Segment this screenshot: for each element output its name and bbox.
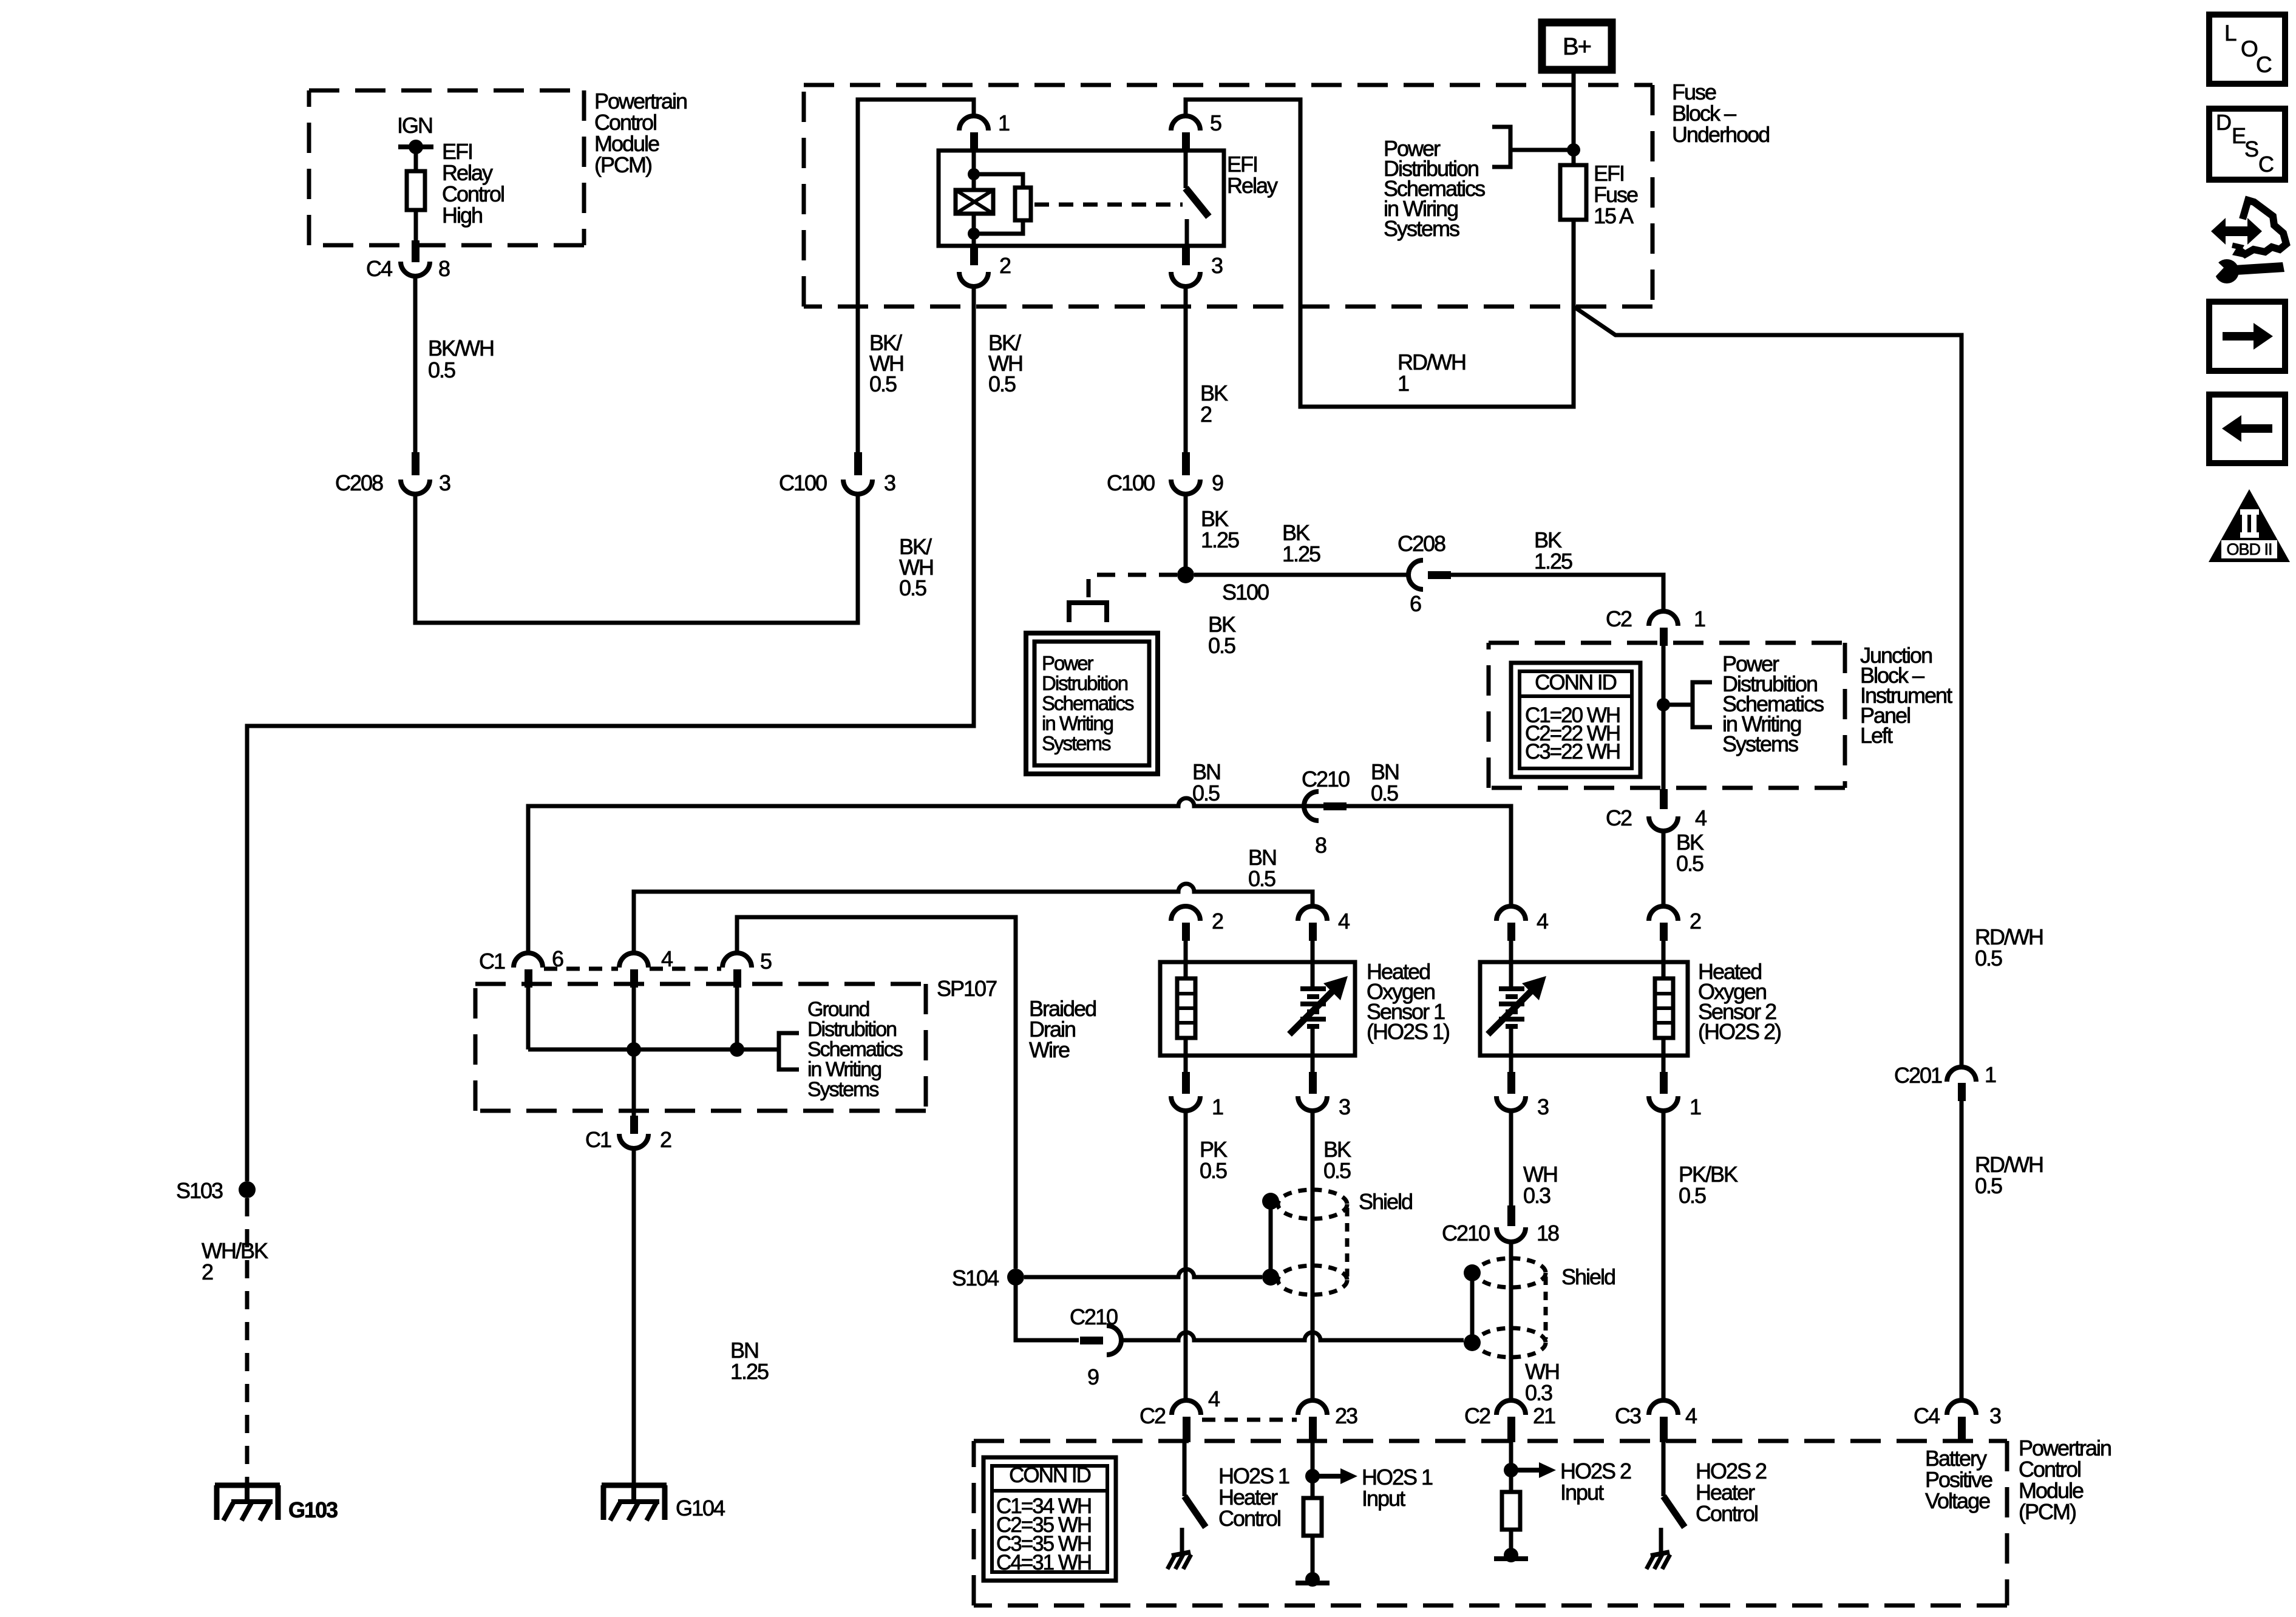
connector C1 pin 2 (cup) [619, 1134, 648, 1148]
node IGN terminal [398, 140, 433, 154]
label C1 (top) [479, 949, 505, 974]
svg-text:3: 3 [439, 470, 450, 495]
svg-text:C100: C100 [779, 470, 827, 495]
connector C1 pin 5 (stub) [733, 969, 741, 988]
label 4 (bottom C2) [1208, 1386, 1220, 1411]
connector C208 pin 3 (pin stub) [412, 452, 419, 475]
relay pin 1 connector (cap) [959, 116, 988, 131]
label Powertrain Control Module (PCM) top [594, 89, 687, 177]
svg-text:C208: C208 [1398, 531, 1445, 556]
connector C201 pin 1 (stub) [1958, 1083, 1966, 1101]
label S103 [176, 1178, 223, 1203]
SP107 callout bracket [779, 1033, 799, 1070]
label Junction Block - Instrument Panel Left [1860, 643, 1952, 748]
svg-text:C2: C2 [1140, 1403, 1166, 1428]
wire BK 2 relay pin3 to C100-9 [1184, 285, 1188, 453]
node S100 splice [1177, 566, 1194, 583]
Fuse Block Underhood dashed box outline [804, 85, 1652, 307]
SP107 dashed box outline [475, 984, 926, 1111]
connector C3 pin 4 (cap) [1649, 1400, 1678, 1415]
icon OBD II triangle [2209, 489, 2290, 562]
label 21 (C2) [1533, 1403, 1555, 1428]
svg-text:C3=22 WH: C3=22 WH [1525, 740, 1620, 764]
svg-text:C210: C210 [1070, 1304, 1118, 1329]
svg-text:in Writing: in Writing [1042, 712, 1113, 734]
HO2S2 heater element [1655, 978, 1673, 1038]
svg-text:3: 3 [1339, 1094, 1350, 1119]
label G103 [288, 1497, 338, 1522]
svg-text:Control: Control [1696, 1501, 1758, 1526]
svg-text:0.5: 0.5 [1676, 851, 1703, 876]
label C100 (pin9) [1107, 470, 1155, 495]
label C208 (left wire) [335, 470, 383, 495]
wire B+ down to junction [1572, 70, 1576, 152]
label C208 (top) [1398, 531, 1445, 556]
wire HO2S1 heater to box bottom [1184, 1038, 1188, 1056]
label S100 [1222, 580, 1269, 605]
svg-text:G103: G103 [288, 1497, 338, 1522]
svg-text:Shield: Shield [1561, 1264, 1615, 1289]
wire BK 0.5 C2-4 to HO2S2 pin 2 [1662, 831, 1666, 907]
wire WH 0.3 HO2S2 pin3 to C210-18 [1509, 1111, 1513, 1207]
connector C201 pin 1 (cap) [1947, 1067, 1976, 1082]
svg-text:Systems: Systems [1722, 731, 1798, 756]
label C210 (pin18) [1442, 1221, 1490, 1246]
relay coil branch wires [968, 151, 1023, 246]
label 18 (C210) [1537, 1221, 1559, 1246]
HO2S2 input arrow [1511, 1462, 1556, 1478]
svg-text:1: 1 [1985, 1062, 1996, 1087]
label 3 (C100) [884, 470, 895, 495]
HO2S2 sensor element (bars and arrow) [1488, 962, 1546, 1056]
svg-text:Wire: Wire [1029, 1037, 1070, 1062]
svg-text:C: C [2258, 152, 2274, 177]
wire BK 1.25 C100-9 to S100 [1184, 494, 1188, 575]
svg-text:0.5: 0.5 [1248, 866, 1275, 891]
relay pin 3 connector (cup) [1171, 272, 1200, 286]
HO2S1 heater element [1177, 978, 1195, 1038]
svg-text:21: 21 [1533, 1403, 1555, 1428]
dashed link C2 pins 4-23 [1202, 1418, 1297, 1422]
relay coil parallel resistor [1015, 188, 1031, 220]
power distribution callout bracket (top) [1492, 127, 1574, 167]
label HO2S 2 Heater Control [1696, 1459, 1767, 1526]
connector C2 pin 1 (stub) [1660, 628, 1668, 646]
svg-text:6: 6 [1410, 591, 1421, 616]
resistor EFI Relay Control High driver [407, 171, 425, 210]
svg-text:Systems: Systems [1384, 216, 1459, 241]
svg-text:0.5: 0.5 [1200, 1158, 1227, 1183]
label C1 (pin2) [585, 1127, 611, 1152]
label Power Distrubition Schematics in Writing Systems (junction block) [1722, 651, 1824, 756]
connector C208 pin 6 (socket) [1408, 560, 1423, 589]
label RD/WH 0.5 (upper) [1975, 924, 2043, 971]
svg-text:D: D [2216, 110, 2231, 135]
node shield 2 lower dot [1464, 1334, 1481, 1351]
wire BN 0.5 C1-4 up and right to HO2S1 pin 4 [634, 884, 1313, 953]
svg-text:OBD II: OBD II [2226, 540, 2272, 558]
svg-text:(PCM): (PCM) [2019, 1499, 2076, 1524]
svg-text:High: High [442, 203, 482, 228]
connector C208 pin 3 (cup) [401, 480, 430, 494]
wire braided drain C1-5 to S104 [737, 917, 1016, 1269]
connector C2 pin 4 bottom (cap) [1172, 1400, 1201, 1415]
label C1=34 WH [996, 1494, 1091, 1518]
label 6 (C1) [552, 946, 563, 971]
label Battery Positive Voltage [1925, 1446, 1992, 1513]
wire HO2S2 pin4 into box [1509, 941, 1513, 988]
HO2S1 input bias resistor [1303, 1476, 1322, 1536]
svg-text:8: 8 [438, 256, 450, 281]
HO2S1 pin 2 stub [1182, 923, 1190, 941]
label 2 (HO2S2) [1690, 909, 1701, 934]
connector C4 pin 3 (cap) [1947, 1400, 1976, 1415]
svg-text:1: 1 [1212, 1094, 1223, 1119]
connector C100 pin 3 (pin stub) [854, 452, 862, 475]
svg-text:C2: C2 [1606, 805, 1632, 830]
label SP107 [937, 976, 997, 1001]
svg-text:Systems: Systems [1042, 732, 1111, 754]
HO2S2 input ground [1494, 1530, 1528, 1562]
connector C1 pin 6 (stub) [525, 969, 532, 988]
label C4 (pin3) [1914, 1403, 1940, 1428]
label WH 0.3 (lower) [1525, 1359, 1559, 1405]
svg-text:2: 2 [202, 1259, 213, 1284]
node shield 2 upper dot [1464, 1264, 1481, 1281]
label BK/WH 0.5 (left of relay pin1 wire) [869, 330, 903, 396]
svg-text:C2: C2 [1606, 606, 1632, 631]
label BK 2 [1200, 381, 1228, 427]
Power Distrubition Schematics callout box (left) [1026, 633, 1158, 774]
shield 2 symbol (dashed cylinder) [1476, 1258, 1546, 1357]
label C210 (pin8) [1302, 767, 1350, 792]
svg-text:(HO2S 1): (HO2S 1) [1367, 1019, 1449, 1044]
label 5 (C1) [760, 949, 772, 974]
label 2 (HO2S1) [1212, 909, 1223, 934]
icon LOC box [2209, 15, 2285, 84]
label 4 (C3) [1685, 1403, 1697, 1428]
svg-text:2: 2 [1690, 909, 1701, 934]
connector C1 pin 4 (cap) [619, 953, 648, 968]
svg-text:CONN ID: CONN ID [1535, 671, 1617, 694]
label S104 [952, 1266, 999, 1290]
connector C1 pin 5 (cap) [722, 953, 752, 968]
svg-text:BK/WH: BK/WH [428, 336, 494, 361]
svg-text:Control: Control [1218, 1506, 1280, 1531]
svg-text:0.5: 0.5 [988, 371, 1016, 396]
icon next page arrow box [2209, 302, 2285, 371]
label 3 (HO2S1) [1339, 1094, 1350, 1119]
wire BK 1.25 C208-6 to C2-1 [1451, 575, 1663, 611]
HO2S1 pin 4 stub [1309, 923, 1317, 941]
Junction Block dashed box outline [1489, 643, 1845, 788]
wire C100-3 up and over to relay pin 1 [858, 100, 974, 453]
label C2=35 WH [996, 1513, 1091, 1537]
svg-text:(PCM): (PCM) [594, 152, 651, 177]
dashed ref wire S100 to power distribution box [1089, 575, 1177, 600]
wire WH 0.3 C210-18 to C2-21 [1509, 1242, 1513, 1400]
label 4 (C1) [661, 946, 673, 971]
svg-text:9: 9 [1087, 1364, 1099, 1389]
label WH/BK 2 [202, 1238, 268, 1284]
label HO2S 1 Heater Control [1218, 1463, 1289, 1531]
connector C210 pin 18 (stub) [1507, 1205, 1515, 1226]
HO2S1 pin 4 connector (cap) [1298, 906, 1327, 921]
svg-text:S103: S103 [176, 1178, 223, 1203]
wire relay pin2 to S103 [247, 285, 974, 1181]
svg-text:3: 3 [1989, 1403, 2001, 1428]
icon diagnostic tool (arrows and wrench) [2205, 200, 2286, 283]
svg-text:C4: C4 [1914, 1403, 1940, 1428]
label 1 (C2) [1694, 606, 1705, 631]
CONN ID table (junction block) [1511, 663, 1640, 777]
label RD/WH 1 [1398, 350, 1466, 396]
wire HO2S2 input sense [1509, 1442, 1513, 1470]
wire RD/WH branch to PCM battery voltage [1574, 307, 1961, 1067]
svg-text:1: 1 [1398, 371, 1409, 396]
relay pin 5 connector (cap) [1171, 116, 1200, 131]
label C4=31 WH [996, 1551, 1091, 1575]
HO2S1 input ground [1296, 1536, 1330, 1587]
svg-text:1.25: 1.25 [1201, 527, 1239, 552]
label Power Distrubition Schematics in Writing Systems (left box) [1042, 652, 1134, 754]
wire drain C210-9 to shield 2 [1121, 1332, 1464, 1340]
svg-text:0.3: 0.3 [1525, 1380, 1552, 1405]
HO2S1 sensor element (bars and arrow) [1289, 962, 1348, 1056]
svg-text:L: L [2224, 21, 2237, 46]
HO2S2 heater control switch [1661, 1442, 1685, 1554]
node shield 1 lower dot [1262, 1269, 1279, 1286]
wire PK 0.5 HO2S1 pin1 to C2-4 [1184, 1111, 1188, 1400]
fuse EFI 15A [1560, 150, 1586, 220]
label 1 (relay pin) [998, 110, 1010, 135]
svg-text:S100: S100 [1222, 580, 1269, 605]
connector C2 pin 23 (stub) [1309, 1417, 1317, 1442]
relay pin 2 stub [970, 246, 978, 265]
svg-text:5: 5 [760, 949, 772, 974]
wire BN 0.5 C210-8 to HO2S2 pin 4 [1347, 806, 1511, 907]
label BK 0.5 (junction) [1676, 830, 1704, 876]
svg-text:18: 18 [1537, 1221, 1559, 1246]
connector C100 pin 9 (stub) [1182, 452, 1190, 475]
svg-text:0.5: 0.5 [1679, 1183, 1706, 1208]
HO2S2 pin 1 stub+cup [1649, 1056, 1678, 1111]
label Fuse Block - Underhood [1672, 80, 1769, 147]
dashed link C1 pins 4-5 [650, 967, 721, 971]
relay pin 1 stub [970, 132, 978, 152]
svg-text:0.3: 0.3 [1523, 1183, 1550, 1208]
connector C2 pin 4 (stub) [1660, 789, 1668, 809]
svg-text:C4=31 WH: C4=31 WH [996, 1551, 1091, 1575]
wire HO2S1 pin2 into box [1184, 941, 1188, 978]
connector C1 pin 4 (stub) [630, 969, 638, 988]
svg-text:SP107: SP107 [937, 976, 997, 1001]
svg-text:4: 4 [1338, 909, 1350, 934]
connector C4 pin 8 (pin stub) [412, 240, 419, 262]
label 1 (HO2S2) [1690, 1094, 1701, 1119]
HO2S1 box outline [1160, 962, 1355, 1056]
svg-text:3: 3 [884, 470, 895, 495]
relay coil (box with X) [956, 190, 993, 214]
wire HO2S1 pin4 into box [1311, 941, 1315, 988]
HO2S1 heater control switch [1182, 1442, 1206, 1554]
svg-text:Voltage: Voltage [1925, 1488, 1990, 1513]
relay pin 2 connector (cup) [959, 272, 988, 286]
label C2 (bottom pin4) [1140, 1403, 1166, 1428]
svg-text:1.25: 1.25 [730, 1359, 769, 1384]
label C2 (pin21) [1464, 1403, 1490, 1428]
label 6 (C208) [1410, 591, 1421, 616]
connector C4 pin 3 (stub) [1958, 1417, 1966, 1442]
connector C2 pin 21 (stub) [1507, 1417, 1515, 1442]
svg-text:1.25: 1.25 [1534, 549, 1572, 574]
label C2=22 WH [1525, 722, 1620, 745]
svg-text:IGN: IGN [397, 113, 432, 138]
connector C3 pin 4 (stub) [1660, 1417, 1668, 1442]
svg-text:C210: C210 [1442, 1221, 1490, 1246]
node S104 splice [1007, 1269, 1024, 1286]
junction block callout bracket [1663, 682, 1712, 727]
power distribution fork symbol [1069, 603, 1107, 622]
label 1 (C201) [1985, 1062, 1996, 1087]
label Shield (HO2S2) [1561, 1264, 1615, 1289]
label 8 [438, 256, 450, 281]
svg-text:Input: Input [1560, 1480, 1604, 1505]
svg-text:2: 2 [1200, 402, 1212, 427]
HO2S2 box outline [1480, 962, 1688, 1056]
label 23 (C2) [1335, 1403, 1357, 1428]
svg-text:C1: C1 [585, 1127, 611, 1152]
connector C2 pin 4 bottom (stub) [1183, 1417, 1190, 1442]
wire BN 1.25 C1-2 to G104 [632, 1148, 636, 1483]
label 8 (C210) [1315, 833, 1326, 858]
wire inside junction block C2-1 to C2-4 [1662, 644, 1666, 789]
connector C210 pin 8 (socket) [1304, 792, 1319, 821]
label C3 [1615, 1403, 1641, 1428]
label C100 (pin3) [779, 470, 827, 495]
label 3 (C4) [1989, 1403, 2001, 1428]
svg-text:9: 9 [1212, 470, 1223, 495]
node SP107 bus dot (pin4) [627, 1042, 641, 1057]
label RD/WH 0.5 (lower) [1975, 1152, 2043, 1198]
wire WH/BK 2 dashed to G103 [245, 1198, 250, 1483]
svg-text:0.5: 0.5 [1192, 781, 1220, 805]
HO2S2 pin 3 stub+cup [1496, 1056, 1526, 1111]
svg-text:5: 5 [1210, 110, 1221, 135]
svg-text:Power: Power [1042, 652, 1094, 674]
label Heated Oxygen Sensor 2 (HO2S 2) [1698, 959, 1781, 1044]
svg-text:S: S [2244, 137, 2258, 161]
svg-text:Relay: Relay [1227, 173, 1278, 198]
label PK 0.5 [1200, 1137, 1228, 1183]
label 9 (C100) [1212, 470, 1223, 495]
label 4 (HO2S2) [1537, 909, 1548, 934]
label BN 0.5 (bus B) [1248, 845, 1276, 891]
connector C210 pin 8 (pin stub) [1323, 802, 1347, 810]
svg-text:4: 4 [1208, 1386, 1220, 1411]
node HO2S1 input tap [1305, 1469, 1320, 1483]
svg-text:2: 2 [999, 253, 1011, 278]
svg-text:2: 2 [660, 1127, 671, 1152]
svg-text:C3: C3 [1615, 1403, 1641, 1428]
wire IGN to resistor [414, 147, 418, 171]
label BK/WH 0.5 (below relay pin2) [988, 330, 1022, 396]
label PK/BK 0.5 [1679, 1162, 1738, 1208]
wire RD/WH 0.5 to C4-3 [1960, 1101, 1964, 1400]
wire HO2S1 input sense [1311, 1442, 1315, 1476]
svg-text:23: 23 [1335, 1403, 1357, 1428]
HO2S1 input arrow [1313, 1468, 1357, 1484]
label BN 1.25 [730, 1338, 769, 1384]
ground (HO2S2 heater control) [1646, 1528, 1670, 1569]
svg-text:0.5: 0.5 [428, 358, 455, 382]
label CONN ID (PCM) [1009, 1463, 1091, 1487]
wire SP107 ground bus [528, 988, 779, 1049]
label BK 1.25 (right of S100) [1282, 520, 1320, 566]
HO2S2 pin 4 stub [1507, 923, 1515, 941]
HO2S2 pin 2 connector (cap) [1649, 906, 1678, 921]
HO2S1 pin 2 connector (cap) [1171, 906, 1200, 921]
connector C210 pin 9 (socket) [1107, 1326, 1121, 1355]
label C3=35 WH [996, 1532, 1091, 1556]
label 3 (HO2S2) [1537, 1094, 1549, 1119]
svg-text:0.5: 0.5 [1371, 781, 1398, 805]
relay switch [1186, 151, 1209, 246]
icon previous page arrow box [2209, 395, 2285, 463]
wire BN 0.5 C1-6 up and right to C210-8 [528, 798, 1408, 953]
wire shield 2 drain link [1470, 1273, 1475, 1343]
label HO2S 1 Input [1362, 1465, 1433, 1511]
label Shield (HO2S1) [1359, 1189, 1412, 1214]
svg-text:0.5: 0.5 [1975, 1173, 2002, 1198]
PCM (bottom) dashed box outline [974, 1441, 2007, 1605]
label 2 (C1-2) [660, 1127, 671, 1152]
ground G104 [602, 1485, 667, 1520]
connector C2 pin 4 (cup) [1649, 816, 1678, 831]
wire shield 1 drain link [1269, 1201, 1273, 1277]
label C201 [1894, 1063, 1942, 1088]
svg-text:Distrubition: Distrubition [1042, 672, 1128, 694]
svg-text:C208: C208 [335, 470, 383, 495]
label 5 (relay pin) [1210, 110, 1221, 135]
connector C100 pin 9 (cup) [1171, 480, 1200, 494]
EFI relay box outline [939, 151, 1224, 246]
label C3=22 WH [1525, 740, 1620, 764]
connector C210 pin 18 (cup) [1496, 1227, 1526, 1242]
svg-text:4: 4 [1685, 1403, 1697, 1428]
relay pin 3 stub [1182, 246, 1190, 265]
wire resistor to C4 pin 8 [414, 210, 418, 242]
svg-text:Shield: Shield [1359, 1189, 1412, 1214]
label BK 1.25 (right of C208-6) [1534, 527, 1572, 574]
wire BK 0.5 HO2S1 pin3 to C2-23 [1311, 1111, 1315, 1400]
svg-text:C4: C4 [366, 256, 392, 281]
connector C2 pin 21 (cap) [1496, 1400, 1526, 1415]
label EFI Fuse 15 A [1594, 161, 1638, 228]
label BK/WH 0.5 (below C100-3) [899, 534, 933, 600]
label Power Distribution Schematics in Wiring Systems (fuse block) [1384, 136, 1485, 241]
label C4 [366, 256, 392, 281]
connector C1 pin 2 (stub) [630, 1116, 638, 1134]
svg-text:2: 2 [1212, 909, 1223, 934]
svg-text:C: C [2256, 52, 2272, 77]
svg-text:1: 1 [998, 110, 1010, 135]
relay dashed actuation line [1034, 203, 1183, 207]
wire drain S104 down to C210-9 [1016, 1277, 1079, 1340]
label WH 0.3 (upper) [1523, 1162, 1557, 1208]
connector C210 pin 9 (pin stub) [1080, 1337, 1103, 1344]
label Powertrain Control Module (PCM) bottom [2019, 1436, 2111, 1524]
